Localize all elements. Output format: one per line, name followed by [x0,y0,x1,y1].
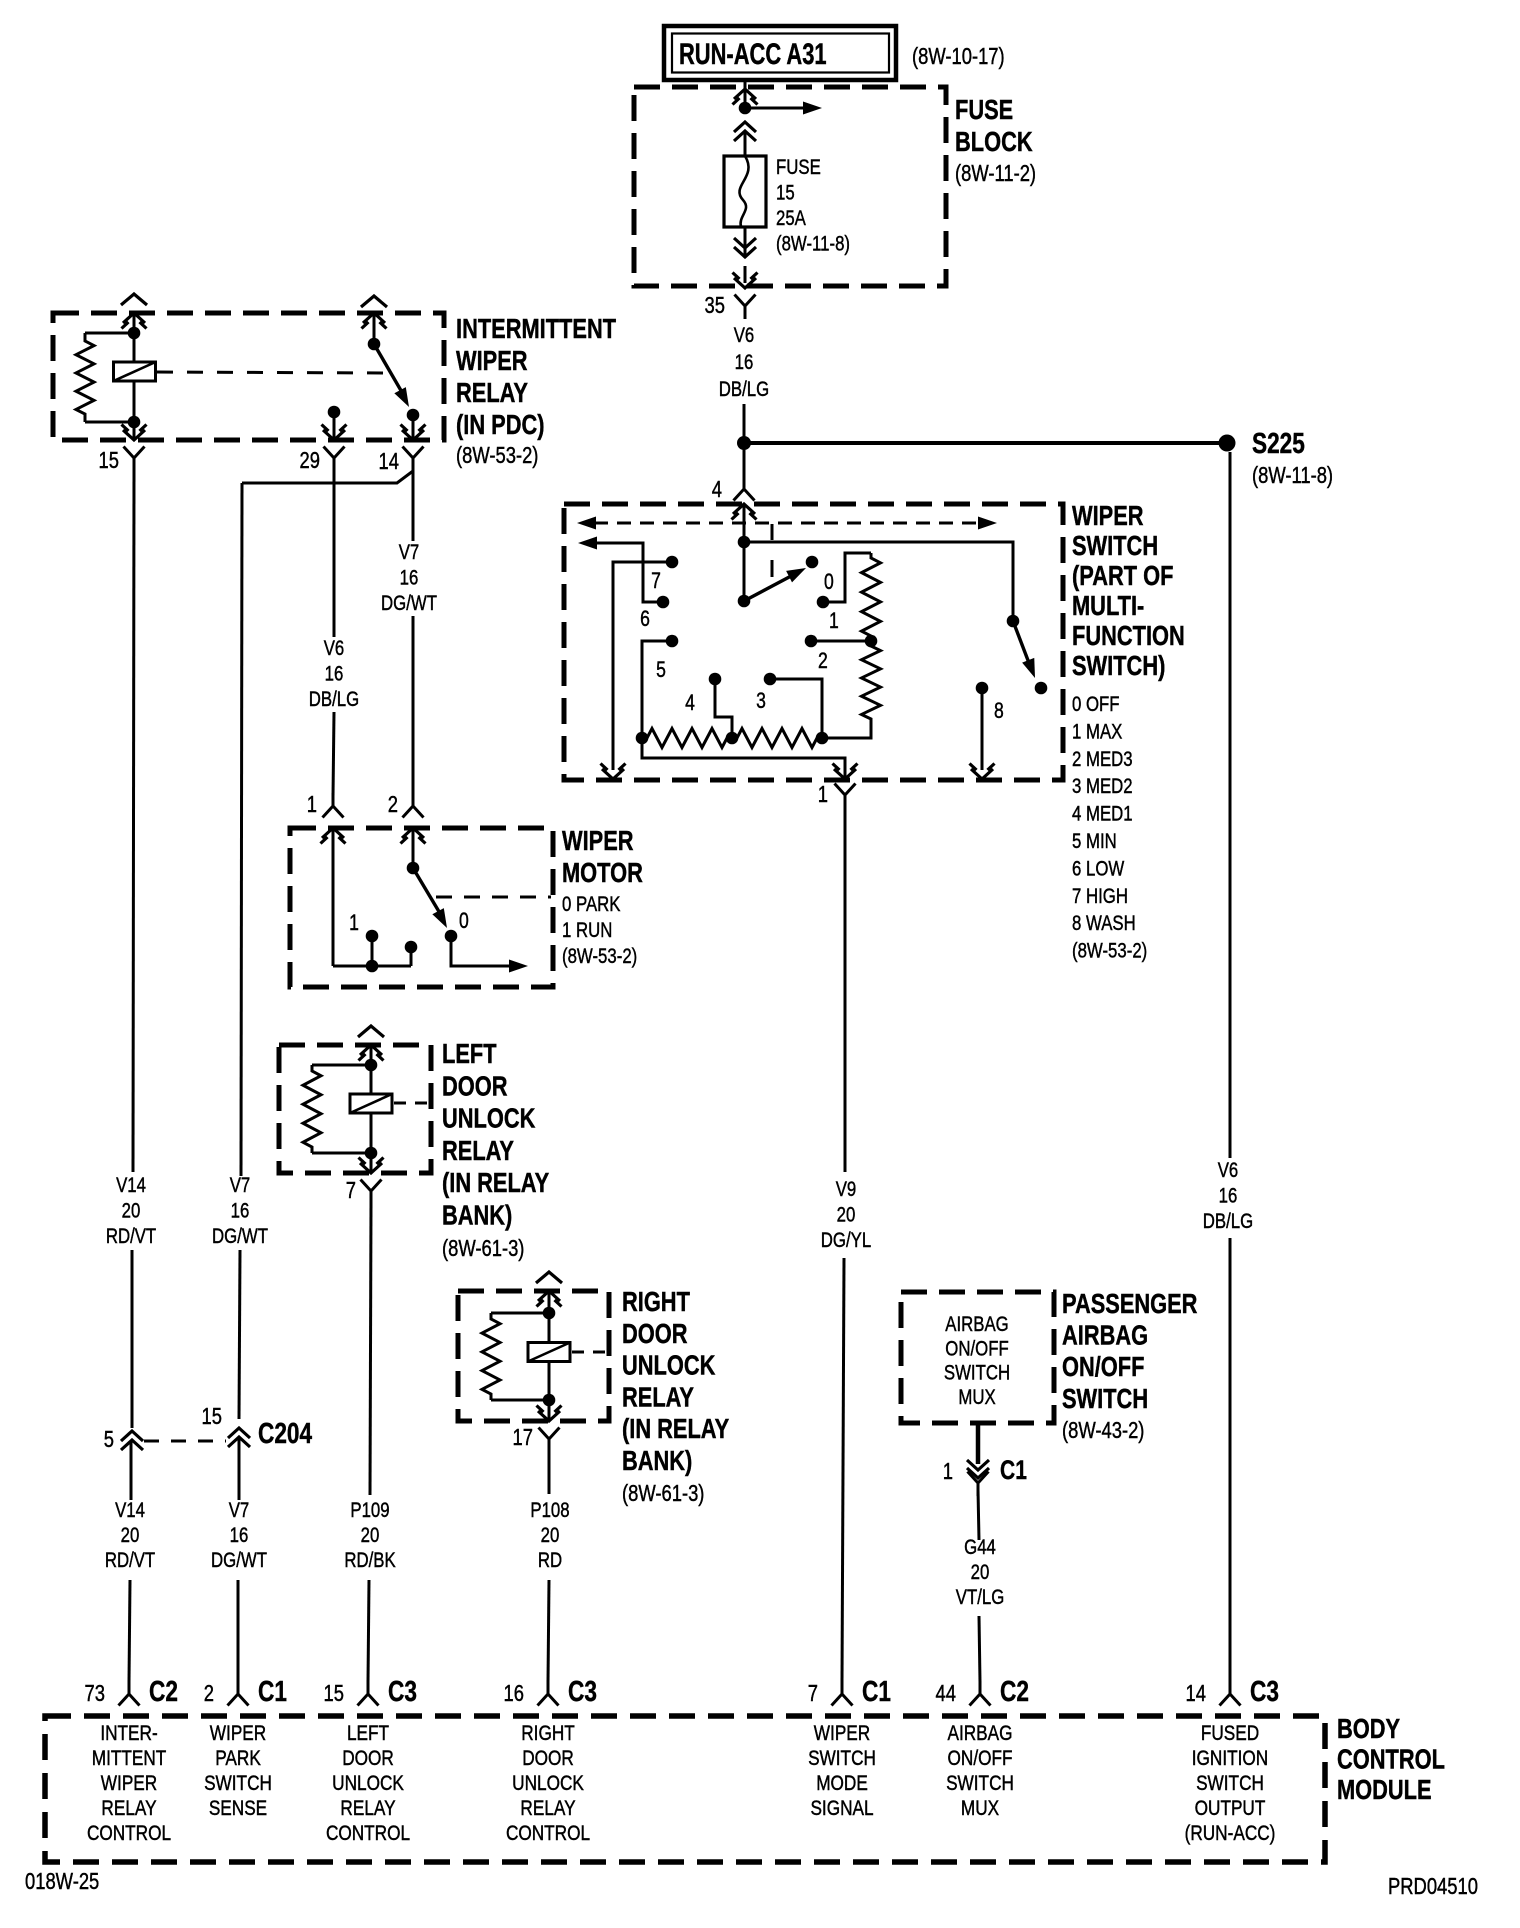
svg-text:P109: P109 [350,1499,389,1522]
svg-text:BANK): BANK) [622,1445,692,1476]
svg-text:RELAY: RELAY [442,1135,514,1166]
svg-text:(8W-11-2): (8W-11-2) [955,161,1036,186]
left relay coil bottom junction [365,1147,378,1160]
border crossing into motor pin 1 [322,828,344,838]
switch rotor arm [738,595,751,608]
svg-text:6: 6 [640,607,650,631]
svg-text:C2: C2 [1000,1674,1029,1707]
connector C1 (airbag) [967,1460,989,1470]
border crossing out left relay pin 7 [360,1163,382,1173]
passenger airbag on/off switch box [901,1292,1054,1423]
wire: resistor bottom to delay resistor [822,724,871,738]
wire to splice S225 [744,441,1227,445]
left door unlock relay box [279,1045,431,1173]
svg-text:PARK: PARK [215,1748,261,1771]
svg-text:CONTROL: CONTROL [506,1823,590,1846]
splice S225 [1219,435,1236,452]
contact 6 [657,596,670,609]
svg-text:V7: V7 [229,1499,250,1522]
svg-text:DG/WT: DG/WT [381,592,437,615]
wire V7 to BCM pin 2 [237,1580,240,1682]
svg-text:0 OFF: 0 OFF [1072,693,1120,716]
svg-text:FUSE: FUSE [955,94,1013,125]
svg-text:1 RUN: 1 RUN [562,919,612,942]
svg-text:P108: P108 [530,1499,569,1522]
svg-text:C3: C3 [388,1674,417,1707]
svg-text:MITTENT: MITTENT [92,1748,167,1771]
svg-text:C204: C204 [258,1416,313,1449]
relay switch common wire [373,313,376,344]
BCM pin 2 connector C1 [228,1694,239,1706]
svg-text:16: 16 [325,663,344,686]
svg-text:44: 44 [936,1681,956,1706]
wire V6 from S225 down right side [1229,452,1232,1158]
svg-text:INTER-: INTER- [100,1723,157,1746]
svg-text:RD/BK: RD/BK [344,1549,396,1572]
svg-text:FUSE: FUSE [776,156,821,179]
wire from contact 3 [770,679,822,738]
delay resistor right node [816,732,829,745]
svg-text:V6: V6 [734,324,755,347]
svg-text:SWITCH: SWITCH [1196,1773,1264,1796]
BCM pin 7 connector C1 [832,1694,843,1706]
connector at right relay pin 17 [539,1428,550,1440]
wire from contact 1 to resistor top [823,553,871,602]
body control module box [45,1716,1325,1862]
border crossing out (pin 1) [834,769,856,779]
svg-text:(RUN-ACC): (RUN-ACC) [1185,1823,1276,1846]
svg-text:WIPER: WIPER [210,1723,266,1746]
intermittent wiper relay box [53,313,444,440]
wire: common to wash switch [744,542,1013,621]
svg-text:UNLOCK: UNLOCK [512,1773,584,1796]
motor park dashed position line [436,896,551,899]
svg-text:BLOCK: BLOCK [955,126,1033,157]
wire V7 to motor pin 2 [412,616,415,797]
connector at relay pin 14 [403,447,414,459]
resistor: speed select upper [862,553,881,641]
svg-text:20: 20 [837,1204,856,1227]
inline connector below fuse [734,247,756,257]
svg-text:2: 2 [388,792,398,817]
wire: splice down to wiper switch pin 4 [743,443,746,484]
svg-text:C3: C3 [1250,1674,1279,1707]
svg-text:UNLOCK: UNLOCK [442,1103,535,1134]
svg-text:1: 1 [829,609,839,633]
BCM pin 44 connector C2 [970,1694,981,1706]
mechanical detent dashed arrow [594,522,980,525]
delay resistor left node [636,732,649,745]
connector at switch pin 1 [835,784,846,796]
svg-text:73: 73 [85,1681,105,1706]
wire from relay pin 14 via diagonal [242,471,413,483]
wire from contact 8 down [981,688,984,770]
left relay coil dashed link [394,1102,431,1105]
contact 4 [709,673,722,686]
splice junction on V6 [737,436,751,450]
wire V9 to BCM pin 7 [842,1258,844,1682]
svg-text:2: 2 [204,1681,214,1706]
connector C204 pin 5 [121,1431,143,1441]
fuse 15 (25A) [724,156,766,227]
border crossing into motor pin 2 [402,828,424,838]
svg-text:BANK): BANK) [442,1200,512,1231]
svg-text:(8W-53-2): (8W-53-2) [562,945,637,968]
svg-text:16: 16 [735,351,754,374]
svg-text:UNLOCK: UNLOCK [622,1350,715,1381]
wire relay 14 to border [412,415,415,440]
arrow: feed continues right [745,107,806,110]
wire V14 below C204 [130,1441,133,1500]
wire P108 to BCM pin 16 [548,1580,549,1682]
svg-text:V7: V7 [399,541,420,564]
connector at motor pin 2 [403,806,414,818]
wire from contact 6 to wash-out arrow [592,543,663,602]
wire P109 to BCM pin 15 [368,1580,369,1682]
svg-text:(8W-61-3): (8W-61-3) [622,1481,704,1506]
svg-text:RD: RD [538,1549,562,1572]
right relay coil wire [548,1291,551,1421]
svg-text:RELAY: RELAY [622,1382,694,1413]
svg-text:7 HIGH: 7 HIGH [1072,885,1128,908]
wire V14 to C204 [131,1250,134,1428]
svg-text:DOOR: DOOR [442,1071,507,1102]
svg-text:RELAY: RELAY [520,1798,575,1821]
svg-text:4 MED1: 4 MED1 [1072,803,1133,826]
svg-text:RELAY: RELAY [456,377,528,408]
svg-text:AIRBAG: AIRBAG [945,1313,1008,1336]
border crossing down (contact 8 wire) [971,769,993,779]
svg-text:IGNITION: IGNITION [1192,1748,1268,1771]
svg-text:018W-25: 018W-25 [25,1869,99,1894]
wire V9 from wiper switch pin 1 [844,808,847,1172]
svg-text:ON/OFF: ON/OFF [1062,1352,1144,1383]
svg-text:29: 29 [300,448,320,473]
wire G44 down [978,1490,979,1540]
svg-text:DG/YL: DG/YL [821,1229,871,1252]
motor run output arrow [451,936,512,966]
border crossing out right relay pin 17 [538,1411,560,1421]
svg-text:UNLOCK: UNLOCK [332,1773,404,1796]
left relay coil top junction [365,1059,378,1072]
connector at relay pin 29 [324,447,335,459]
svg-text:WIPER: WIPER [814,1723,870,1746]
svg-text:4: 4 [712,477,722,502]
motor park sense wiring [332,828,335,966]
svg-text:(IN PDC): (IN PDC) [456,409,545,440]
connector at relay pin 15 [124,447,135,459]
connector at motor pin 1 [323,806,334,818]
svg-text:INTERMITTENT: INTERMITTENT [456,313,617,344]
wire V6 to BCM pin 14 [1229,1238,1232,1682]
continuation arrow above left door relay [358,1026,384,1037]
left relay coil [350,1094,392,1113]
wiper switch box [564,504,1063,780]
svg-text:SWITCH: SWITCH [1062,1383,1148,1414]
svg-text:16: 16 [230,1524,249,1547]
motor contact 0 (park) [445,930,458,943]
connector at wiper switch pin 4 [734,489,745,501]
svg-text:6 LOW: 6 LOW [1072,858,1124,881]
resistor parallel to right relay coil [491,1312,549,1315]
svg-text:MOTOR: MOTOR [562,857,643,888]
svg-text:14: 14 [379,449,399,474]
svg-text:RELAY: RELAY [340,1798,395,1821]
svg-text:RD/VT: RD/VT [106,1225,157,1248]
svg-text:AIRBAG: AIRBAG [1062,1320,1148,1351]
svg-text:1: 1 [349,911,359,935]
resistor tap junction [865,635,878,648]
motor contact 1 (run) dots [366,930,379,943]
svg-text:(PART OF: (PART OF [1072,560,1173,591]
svg-text:16: 16 [504,1681,524,1706]
right relay coil top junction [543,1307,556,1320]
resistor: delay right half [732,729,822,748]
svg-text:SWITCH: SWITCH [946,1773,1014,1796]
continuation arrow above relay [121,294,147,305]
border crossing into relay (switch) [363,313,385,323]
wire: switch output to pin 1 [642,738,845,778]
svg-text:CONTROL: CONTROL [1337,1744,1445,1775]
svg-text:(8W-53-2): (8W-53-2) [1072,940,1147,963]
svg-text:3: 3 [756,689,766,713]
wire V6 to splice [743,404,746,443]
svg-text:SWITCH: SWITCH [944,1362,1010,1385]
border crossing into left door relay [360,1045,382,1055]
svg-text:0: 0 [459,909,469,933]
svg-text:DG/WT: DG/WT [211,1549,267,1572]
svg-text:8: 8 [994,699,1004,723]
svg-text:4: 4 [685,691,695,715]
svg-text:C2: C2 [149,1674,178,1707]
svg-text:ON/OFF: ON/OFF [945,1338,1008,1361]
motor park switch common [412,828,415,868]
svg-text:5 MIN: 5 MIN [1072,830,1117,853]
wire relay 29 to border [333,412,336,440]
wire P108 down [548,1452,551,1494]
svg-text:15: 15 [202,1404,222,1429]
svg-text:C1: C1 [862,1674,891,1707]
svg-text:CONTROL: CONTROL [87,1823,171,1846]
border crossing out of fuse block [734,278,756,288]
svg-text:7: 7 [808,1681,818,1706]
svg-text:2: 2 [818,649,828,673]
feed box RUN-ACC A31 [664,26,896,80]
resistor: speed select lower [862,641,881,724]
svg-text:0 PARK: 0 PARK [562,893,621,916]
svg-text:8 WASH: 8 WASH [1072,913,1136,936]
wire V14 to BCM pin 73 [129,1580,130,1682]
svg-text:WIPER: WIPER [456,345,528,376]
relay switch pivot [368,338,381,351]
relay coil [114,362,156,381]
svg-text:MUX: MUX [958,1386,996,1409]
svg-text:RIGHT: RIGHT [521,1723,575,1746]
svg-text:(8W-43-2): (8W-43-2) [1062,1418,1144,1443]
svg-text:16: 16 [231,1200,250,1223]
BCM pin 14 connector C3 [1220,1694,1231,1706]
right door unlock relay box [458,1291,609,1421]
junction node A31 feed [739,102,752,115]
svg-text:SWITCH): SWITCH) [1072,650,1165,681]
svg-text:DOOR: DOOR [522,1748,574,1771]
border crossing out of relay pin 15 [123,430,145,440]
svg-text:SIGNAL: SIGNAL [810,1798,873,1821]
svg-text:BODY: BODY [1337,1713,1400,1744]
svg-text:20: 20 [971,1561,990,1584]
BCM pin 73 connector C2 [119,1694,130,1706]
wire from contact 7 down to module [613,562,672,770]
svg-text:G44: G44 [964,1536,996,1559]
wire from contact 5 [642,641,672,738]
connector C204 pin 15 [228,1428,250,1438]
wire from contact 4 [715,679,732,738]
svg-text:20: 20 [541,1524,560,1547]
relay contact 29 [328,406,341,419]
resistor: delay left half [642,729,732,748]
border crossing into relay (coil) [123,313,145,323]
svg-text:15: 15 [776,182,795,205]
park sense junction [366,960,379,973]
coil actuation dashed link [157,372,392,373]
svg-text:2 MED3: 2 MED3 [1072,748,1133,771]
svg-text:15: 15 [324,1681,344,1706]
wire: RUN-ACC A31 feed into fuse block [744,80,747,104]
wire below fuse [744,227,747,258]
connector at left relay pin 7 [361,1180,372,1192]
contact 1 [817,596,830,609]
svg-text:MULTI-: MULTI- [1072,590,1144,621]
fuse block box [634,87,946,286]
svg-text:RD/VT: RD/VT [105,1549,156,1572]
contact 2 [805,635,818,648]
svg-text:C1: C1 [258,1674,287,1707]
svg-text:SWITCH: SWITCH [1072,530,1158,561]
motor switch arm [413,868,441,915]
svg-text:(8W-61-3): (8W-61-3) [442,1236,524,1261]
contact 5 [666,635,679,648]
resistor parallel to coil [85,332,134,335]
svg-text:15: 15 [99,448,119,473]
wire: common feed inside switch [743,504,746,601]
relay coil wire [133,313,136,440]
svg-text:RUN-ACC A31: RUN-ACC A31 [679,37,827,71]
contact 8 [976,682,989,695]
svg-text:7: 7 [346,1178,356,1203]
wire V7 to C204 pin 15 [239,1250,240,1419]
svg-text:3 MED2: 3 MED2 [1072,776,1133,799]
svg-text:FUSED: FUSED [1201,1723,1259,1746]
svg-text:DB/LG: DB/LG [719,378,769,401]
right relay coil dashed link [572,1351,609,1354]
border crossing down (contact 7 wire) [602,769,624,779]
right relay coil bottom junction [543,1394,556,1407]
svg-text:V9: V9 [836,1178,857,1201]
svg-text:7: 7 [651,569,661,593]
svg-text:ON/OFF: ON/OFF [948,1748,1013,1771]
svg-text:17: 17 [513,1425,533,1450]
svg-text:SWITCH: SWITCH [204,1773,272,1796]
border crossing into right door relay [538,1291,560,1301]
svg-text:DOOR: DOOR [342,1748,394,1771]
svg-text:CONTROL: CONTROL [326,1823,410,1846]
svg-text:V14: V14 [116,1174,146,1197]
wire V7 below C204 [238,1438,241,1500]
contact 3 [764,673,777,686]
svg-text:MUX: MUX [961,1798,999,1821]
svg-text:LEFT: LEFT [442,1038,497,1069]
mechanical link dashes [771,524,774,540]
svg-text:(8W-11-8): (8W-11-8) [1252,463,1333,488]
svg-text:MODE: MODE [816,1773,868,1796]
svg-text:WIPER: WIPER [562,825,634,856]
svg-text:35: 35 [705,293,725,318]
wire from airbag switch [976,1423,981,1464]
BCM pin 15 connector C3 [358,1694,369,1706]
C204 mating dashed link [144,1440,226,1443]
svg-text:S225: S225 [1252,426,1305,459]
svg-text:AIRBAG: AIRBAG [947,1723,1012,1746]
svg-text:OUTPUT: OUTPUT [1195,1798,1266,1821]
resistor parallel to left relay coil [312,1064,371,1067]
wire from contact 2 to resistor tap [811,640,871,643]
inline connector above fuse [734,122,756,132]
coil top junction [128,327,141,340]
svg-text:DB/LG: DB/LG [1203,1210,1253,1233]
wiper motor box [290,828,553,987]
right relay coil [528,1343,570,1362]
svg-text:MODULE: MODULE [1337,1774,1432,1805]
svg-text:DG/WT: DG/WT [212,1225,268,1248]
svg-text:5: 5 [656,658,666,682]
svg-text:V7: V7 [230,1174,251,1197]
svg-text:(8W-10-17): (8W-10-17) [912,44,1005,69]
wire P109 down [370,1204,371,1495]
connector at pin 35 [735,295,746,307]
svg-text:14: 14 [1186,1681,1206,1706]
svg-text:PASSENGER: PASSENGER [1062,1288,1197,1319]
svg-text:RELAY: RELAY [101,1798,156,1821]
svg-text:(8W-11-8): (8W-11-8) [776,233,850,256]
junction: common to wash wafer [738,536,751,549]
svg-text:1 MAX: 1 MAX [1072,721,1123,744]
svg-text:FUNCTION: FUNCTION [1072,620,1185,651]
svg-text:20: 20 [122,1200,141,1223]
svg-text:V14: V14 [115,1499,145,1522]
svg-text:SENSE: SENSE [209,1798,267,1821]
svg-text:C1: C1 [1000,1456,1027,1486]
contact 0 [806,556,819,569]
svg-text:(8W-53-2): (8W-53-2) [456,443,538,468]
relay switch arm [374,344,403,394]
wire V7 from relay pin 14 down [412,471,415,541]
svg-text:C3: C3 [568,1674,597,1707]
svg-text:20: 20 [121,1524,140,1547]
svg-text:16: 16 [1219,1185,1238,1208]
svg-text:5: 5 [104,1427,114,1452]
border crossing into fuse block [734,89,756,99]
svg-text:WIPER: WIPER [101,1773,157,1796]
delay resistor mid junction [726,732,739,745]
svg-text:1: 1 [943,1459,953,1484]
svg-text:1: 1 [307,792,317,817]
left relay coil wire [370,1045,373,1173]
svg-text:1: 1 [818,782,828,807]
svg-text:WIPER: WIPER [1072,500,1144,531]
wire V14 from relay pin 15 down [133,471,134,1172]
svg-text:V6: V6 [324,637,345,660]
svg-text:DB/LG: DB/LG [309,688,359,711]
